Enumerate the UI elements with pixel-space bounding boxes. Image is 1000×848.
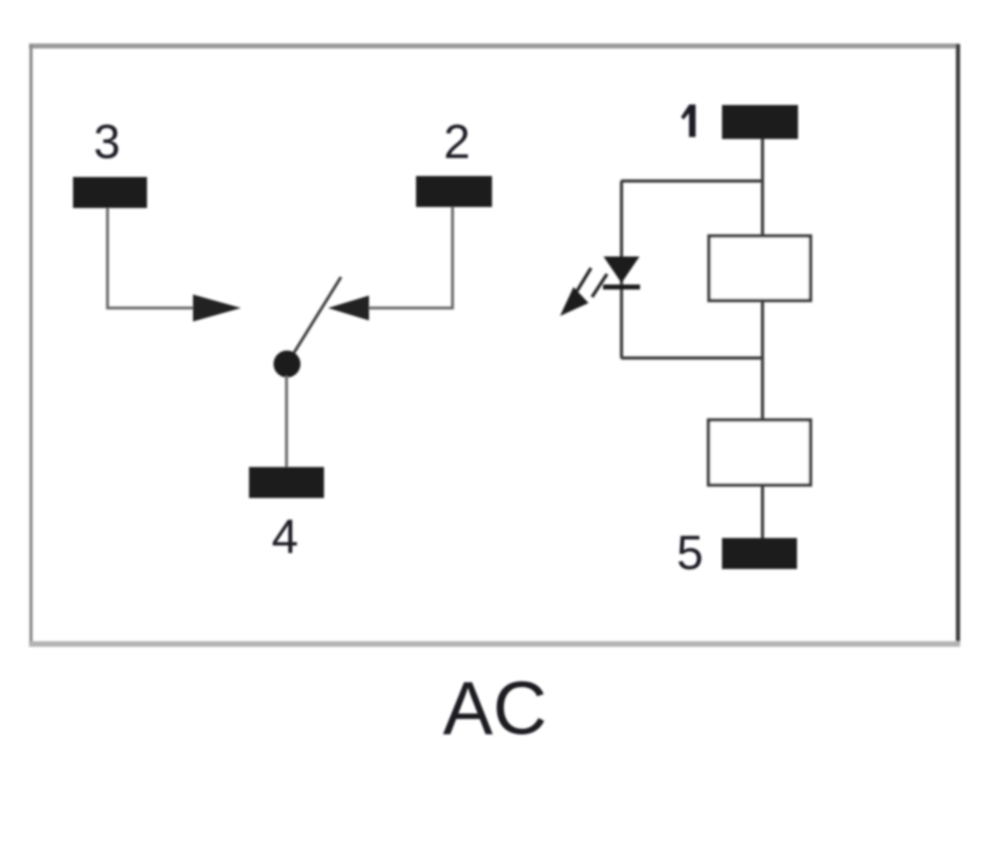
- svg-text:2: 2: [444, 116, 471, 169]
- switch pole dot: [274, 351, 301, 378]
- wire lower coil box to pad5: [761, 485, 764, 539]
- wire LED top branch: [621, 179, 763, 182]
- switch blade: [287, 277, 341, 364]
- terminal pad 5: [722, 538, 797, 569]
- terminal pad 4: [249, 467, 324, 498]
- terminal pad 2: [416, 176, 492, 207]
- wire pad2 to arrow contact: [367, 207, 453, 308]
- terminal pad 1: [722, 105, 798, 139]
- wire LED left branch: [620, 181, 623, 358]
- LED triangle: [604, 257, 640, 284]
- arrow contact of pin 2: [328, 296, 369, 321]
- svg-text:AC: AC: [443, 666, 547, 750]
- svg-text:3: 3: [94, 116, 121, 169]
- wire pole to pad4: [285, 376, 288, 468]
- pin label 1: [681, 105, 696, 138]
- lower coil box: [709, 420, 811, 485]
- wire pad1 to upper coil box: [761, 139, 764, 237]
- upper coil box: [709, 236, 811, 301]
- svg-text:4: 4: [272, 511, 299, 564]
- wire between coil boxes: [761, 300, 764, 420]
- arrow contact of pin 3: [193, 295, 241, 322]
- enclosure frame: [29, 44, 960, 646]
- terminal pad 3: [73, 177, 147, 208]
- wire pad3 to arrow contact: [108, 208, 197, 308]
- svg-text:5: 5: [677, 527, 704, 580]
- LED cathode bar: [603, 285, 640, 290]
- LED emission arrow: [560, 268, 607, 316]
- wire LED bottom branch: [621, 356, 763, 359]
